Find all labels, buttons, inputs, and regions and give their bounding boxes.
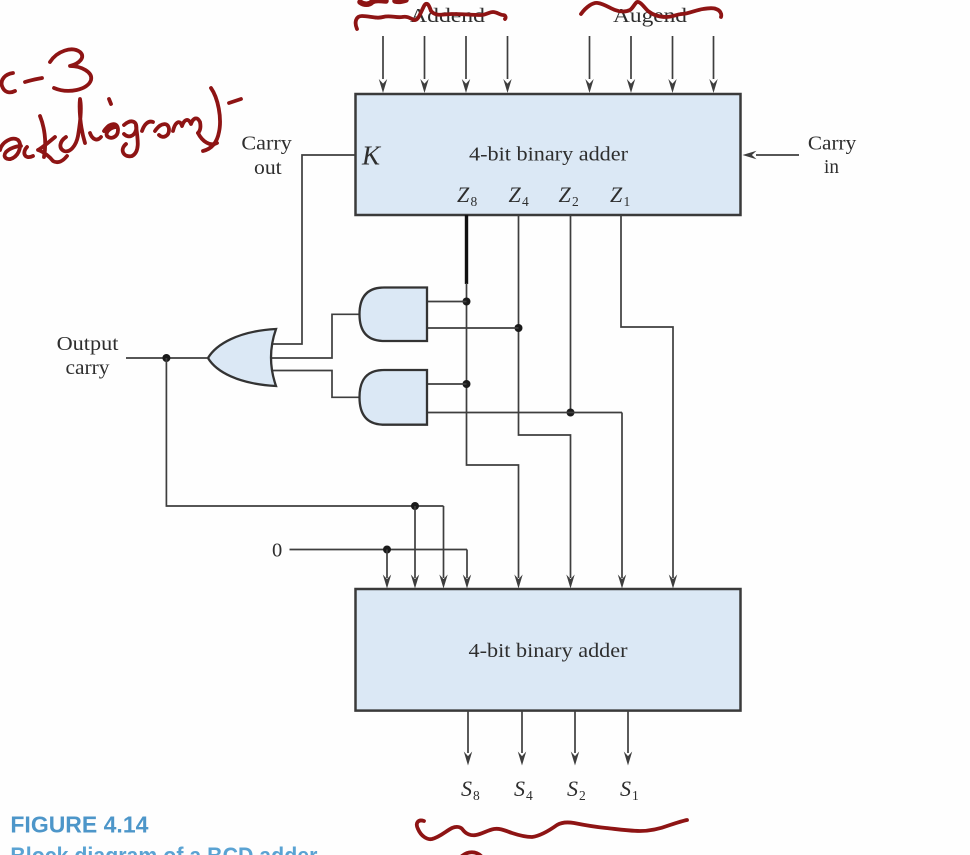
svg-text:carry: carry <box>66 357 111 379</box>
AND gate G2 <box>360 370 428 425</box>
wire: AND1 input from Z8 <box>427 301 467 303</box>
sum output arrows S8 S4 S2 S1 <box>464 711 632 766</box>
svg-text:FIGURE 4.14: FIGURE 4.14 <box>10 811 148 837</box>
OR gate G3 <box>208 329 276 386</box>
svg-text:S: S <box>620 776 631 801</box>
4-bit binary adder U1 (top) <box>356 94 741 215</box>
augend input arrows (4) <box>585 36 717 93</box>
red annotation: handwriting line 1 (partial letter) <box>2 49 92 92</box>
svg-text:in: in <box>824 156 839 178</box>
4-bit binary adder U2 (bottom) <box>356 589 741 711</box>
red annotation: scribble over Addend <box>356 0 506 29</box>
svg-text:4-bit binary adder: 4-bit binary adder <box>469 144 628 166</box>
wire: 0 drop to B1 input <box>466 550 468 579</box>
node: output carry branch <box>162 354 170 362</box>
wire: OR output to Output carry <box>126 357 208 359</box>
red annotation: scribble over Augend <box>581 2 721 17</box>
svg-text:out: out <box>254 157 282 179</box>
bottom adder input arrowheads <box>383 575 677 589</box>
wire: AND1 output to OR middle input <box>264 314 360 358</box>
addend input arrows (4) <box>379 36 512 93</box>
svg-text:2: 2 <box>572 194 579 209</box>
red annotation: bottom squiggle <box>417 820 687 855</box>
svg-text:8: 8 <box>473 788 480 803</box>
svg-text:0: 0 <box>272 540 282 562</box>
wire: K carry-out to OR gate top input <box>266 155 356 344</box>
svg-text:S: S <box>567 776 578 801</box>
svg-text:Carry: Carry <box>241 133 292 155</box>
svg-text:1: 1 <box>632 788 639 803</box>
wire: Z4 vertical with jog <box>519 215 571 578</box>
svg-text:S: S <box>514 776 525 801</box>
red annotation: digit 3 <box>50 49 91 90</box>
svg-text:S: S <box>461 776 472 801</box>
wire: Z2 continuation down to bottom adder <box>621 413 623 579</box>
svg-text:Carry: Carry <box>808 133 857 155</box>
wire: AND2 output to OR bottom input <box>264 371 360 398</box>
wire: Z8 down to AND inputs and jog <box>467 283 519 578</box>
svg-text:1: 1 <box>624 194 631 209</box>
wire: output carry down and across to bottom adder <box>166 358 443 506</box>
svg-text:Block diagram of a BCD adder: Block diagram of a BCD adder <box>10 843 317 855</box>
wire: Z8 vertical (thick upper segment) <box>465 215 468 284</box>
wire: Z1 vertical with jog <box>621 215 673 578</box>
svg-text:4: 4 <box>526 788 533 803</box>
node: Z2 to AND2 input line <box>567 409 575 417</box>
carry-in arrow into right side of U1 <box>743 151 800 159</box>
wire: Z2 vertical <box>570 215 572 413</box>
wire: carry drop to B4 input <box>414 506 416 578</box>
red annotation: handwriting line 2 'ack diagram)-' <box>0 88 241 162</box>
red annotation: clipped mark at bottom edge <box>462 852 481 855</box>
node: carry to B4 drop <box>411 502 419 510</box>
AND gate G1 <box>360 288 428 342</box>
svg-text:2: 2 <box>579 788 586 803</box>
node: 0 to B8 drop <box>383 546 391 554</box>
red annotation: dash <box>25 78 42 82</box>
wire: AND2 input from Z2 (extends to bottom adder drop) <box>427 412 622 414</box>
svg-text:4-bit binary adder: 4-bit binary adder <box>469 640 628 662</box>
node: Z8 to AND2 <box>463 380 471 388</box>
wire: carry drop to B2 input <box>443 506 445 578</box>
node: Z4 to AND1 <box>515 324 523 332</box>
node: Z8 to AND1 <box>463 298 471 306</box>
wire: constant 0 across <box>290 549 468 551</box>
svg-text:K: K <box>361 141 382 171</box>
svg-text:Z: Z <box>509 182 522 207</box>
svg-text:Z: Z <box>610 182 623 207</box>
wire: AND1 input from Z4 <box>427 327 519 329</box>
svg-text:Z: Z <box>559 182 572 207</box>
svg-text:Output: Output <box>57 333 119 355</box>
wire: 0 drop to B8 input <box>386 550 388 579</box>
svg-text:4: 4 <box>522 194 529 209</box>
svg-text:Z: Z <box>457 182 470 207</box>
wire: AND2 input from Z8 <box>427 383 467 385</box>
svg-text:8: 8 <box>471 194 478 209</box>
